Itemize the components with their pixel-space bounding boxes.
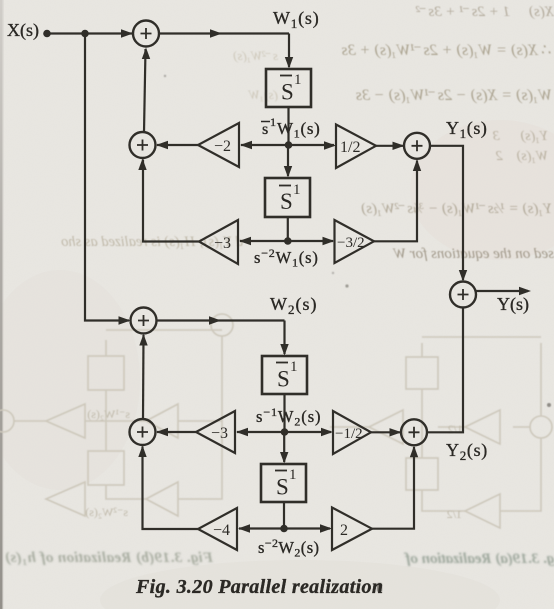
arrowhead into Y1 bottom xyxy=(413,159,421,171)
svg-text:S: S xyxy=(281,80,294,105)
wire: N4 to gain 2 xyxy=(284,527,330,529)
svg-text:Y1(s): Y1(s) xyxy=(446,118,488,141)
wire: N2 to gain -3/2 xyxy=(288,240,333,242)
wire: gain 1/2 to sum Y1 xyxy=(376,145,403,147)
svg-text:1: 1 xyxy=(270,115,276,129)
summing junction Y1 xyxy=(404,133,430,159)
main diagram xyxy=(43,21,531,551)
svg-text:s⁻²W₁(s): s⁻²W₁(s) xyxy=(233,48,278,63)
node: X input dot xyxy=(43,30,51,38)
svg-text:s: s xyxy=(262,121,268,138)
scan speck marks xyxy=(164,75,551,592)
svg-text:Y(s): Y(s) xyxy=(497,294,529,315)
wire: N3 down to delay block 4 xyxy=(283,432,285,462)
svg-text:−4: −4 xyxy=(213,522,230,539)
arrowhead mid top row xyxy=(210,29,222,37)
wire: gain -4 to corner then up to S4 xyxy=(143,447,199,530)
wire: Y output arrow xyxy=(475,290,528,292)
wire: block 1 to node N1 xyxy=(287,107,289,145)
svg-text:1: 1 xyxy=(290,359,298,375)
svg-text:−2: −2 xyxy=(214,138,231,155)
wire: X branch down to row D xyxy=(85,34,129,321)
svg-text:2: 2 xyxy=(340,522,348,539)
node N4 dot xyxy=(280,525,288,533)
svg-text:Y₁(s) = ½s⁻¹W₁(s) − ¾s⁻²W₁(s): Y₁(s) = ½s⁻¹W₁(s) − ¾s⁻²W₁(s) xyxy=(361,201,552,217)
wire: corner down into delay block 1 xyxy=(288,34,290,68)
svg-text:W₁(s) = X(s) − 2s⁻¹W₁(s) − 3s: W₁(s) = X(s) − 2s⁻¹W₁(s) − 3s xyxy=(356,87,552,104)
wire: gain -1/2 to sum Y2 xyxy=(371,431,400,433)
svg-text:W₁(s) 2: W₁(s) 2 xyxy=(496,149,548,164)
delay block 3 xyxy=(262,356,307,394)
svg-text:1/2: 1/2 xyxy=(340,139,360,156)
svg-text:S: S xyxy=(280,189,293,214)
delay block 4 xyxy=(261,464,306,502)
svg-text:1: 1 xyxy=(289,467,297,483)
label s^-1 W1(s) xyxy=(261,115,321,141)
arrowhead Y output xyxy=(519,287,531,295)
svg-text:Y2(s): Y2(s) xyxy=(446,440,488,463)
ghost diagram left (mirrored fig 3.19(b)) xyxy=(0,314,233,516)
gain -1/2 triangle xyxy=(333,411,371,454)
arrowhead into S2 bottom xyxy=(138,159,146,171)
wire: N2 to gain -3 xyxy=(240,240,288,242)
svg-text:−3/2: −3/2 xyxy=(337,235,365,251)
svg-text:g. 3.19(a) Realization of: g. 3.19(a) Realization of xyxy=(403,551,554,567)
wire: N3 to gain -1/2 xyxy=(285,431,332,433)
wire: Y1 right then down to sum Y xyxy=(430,146,463,280)
wire: N1 down to delay block 2 xyxy=(287,145,289,176)
wire: S3 to W2 corner xyxy=(157,319,285,321)
wire: block 2 to node N2 xyxy=(287,217,289,241)
summing junction S4 xyxy=(130,419,156,445)
arrowhead into gain -3 xyxy=(239,237,251,245)
svg-text:s⁻²W₂(s): s⁻²W₂(s) xyxy=(85,505,128,519)
wire: corner down into delay block 3 xyxy=(283,321,285,355)
node: branch dot on X line xyxy=(81,30,89,38)
arrowhead into block 2 xyxy=(284,166,292,178)
gain 2 triangle xyxy=(332,508,372,551)
wire: gain -3/2 to corner then up into Y1 xyxy=(374,161,417,242)
arrowhead into Y2 xyxy=(390,428,402,436)
node N1 dot xyxy=(285,141,293,149)
wire: N1 to gain 1/2 xyxy=(289,144,335,146)
wire: block 3 to node N3 xyxy=(283,394,285,432)
svg-text:(s)₁W: (s)₁W xyxy=(248,87,278,102)
arrowhead into S4 xyxy=(156,428,168,436)
wire: X(s) input to sum S1 xyxy=(48,32,132,34)
arrowhead into block 1 xyxy=(285,57,293,69)
arrowhead into block 4 xyxy=(280,452,288,464)
arrowhead into gain -4 xyxy=(238,524,250,532)
svg-text:S: S xyxy=(276,475,289,500)
node N3 dot xyxy=(281,428,289,436)
summing junction Y2 xyxy=(401,419,427,445)
svg-text:s⁻¹W₂(s): s⁻¹W₂(s) xyxy=(87,407,130,421)
delay block 1 xyxy=(266,69,311,107)
arrowhead into S3 bottom xyxy=(139,334,147,346)
wire: S1 to W1 corner xyxy=(159,32,289,34)
svg-text:X(s): X(s) xyxy=(7,20,39,41)
delay block 2 xyxy=(265,178,310,217)
arrowhead into block 3 xyxy=(280,344,288,356)
summing junction S3 xyxy=(131,308,157,334)
svg-text:X(s) 1 + 2s⁻¹ + 3s⁻²: X(s) 1 + 2s⁻¹ + 3s⁻² xyxy=(416,4,554,20)
wire: gain -2 to sum S2 xyxy=(157,144,198,146)
summing junction S1 xyxy=(133,21,159,47)
svg-text:1: 1 xyxy=(294,72,302,88)
svg-text:1/2: 1/2 xyxy=(448,422,463,436)
svg-text:−1/2: −1/2 xyxy=(335,426,363,442)
ghost captions mirrored xyxy=(5,550,554,567)
wire: N3 to gain -3 (bottom) xyxy=(237,431,285,433)
gain -3 triangle (bottom section) xyxy=(196,411,235,453)
summing junction S2 xyxy=(130,132,156,158)
node N2 dot xyxy=(284,237,292,245)
arrowhead into Y1 xyxy=(393,142,405,150)
arrowhead into S4 bottom xyxy=(138,446,146,458)
ghost diagram right (mirrored fig 3.19(a)) xyxy=(330,337,552,528)
gain 1/2 triangle xyxy=(336,125,376,169)
wire: gain -3 to corner then up to S2 xyxy=(143,160,199,242)
arrowhead into S2 xyxy=(156,141,168,149)
gain -3/2 triangle xyxy=(335,220,375,263)
wire: S2 up to S1 xyxy=(144,49,146,132)
svg-text:1/2: 1/2 xyxy=(447,507,462,521)
wire: N1 to gain -2 xyxy=(241,144,289,146)
wire: Y2 right then up to sum Y xyxy=(427,308,463,433)
gain -4 triangle xyxy=(198,508,237,550)
wire: S4 up to S3 xyxy=(142,335,145,419)
svg-text:−3: −3 xyxy=(214,235,231,252)
arrowhead into gain -3/2 xyxy=(323,237,335,245)
arrowhead into Y2 bottom xyxy=(410,446,418,458)
arrowhead into S1 xyxy=(121,29,133,37)
arrowhead into gain -3 bottom xyxy=(236,428,248,436)
svg-text:Fig. 3.19(b) Realization of h₁: Fig. 3.19(b) Realization of h₁(s) xyxy=(5,550,214,566)
svg-text:1: 1 xyxy=(293,182,301,198)
svg-text:∴ X(s) = W₁(s) + 2s⁻¹W₁(s) + 3: ∴ X(s) = W₁(s) + 2s⁻¹W₁(s) + 3s xyxy=(342,42,552,59)
arrowhead into gain -2 xyxy=(240,141,252,149)
summing junction Y xyxy=(450,282,476,308)
svg-text:sed on the equations for W: sed on the equations for W xyxy=(392,246,554,262)
svg-text:−3: −3 xyxy=(211,425,228,442)
arrowhead into gain 1/2 xyxy=(324,141,336,149)
wire: N4 to gain -4 xyxy=(239,527,284,529)
gain -3 triangle (top section) xyxy=(199,220,238,264)
wire: block 4 to node N4 xyxy=(283,502,285,529)
arrowhead into gain -1/2 xyxy=(321,428,333,436)
wire: gain -3 bottom to S4 xyxy=(157,431,196,433)
wire: gain 2 to corner then up into Y2 xyxy=(372,447,414,529)
arrowhead into S1 bottom xyxy=(142,48,150,60)
arrowhead into gain 2 xyxy=(320,524,332,532)
arrowhead into Y top xyxy=(459,270,467,282)
svg-text:Y₁(s) 3: Y₁(s) 3 xyxy=(493,129,548,144)
svg-text:Fig. 3.20 Parallel realization: Fig. 3.20 Parallel realization xyxy=(135,576,383,598)
gain -2 triangle xyxy=(198,123,239,167)
arrowhead mid row D xyxy=(209,316,221,324)
svg-text:S: S xyxy=(277,367,290,392)
arrowhead into S3 xyxy=(119,316,131,324)
